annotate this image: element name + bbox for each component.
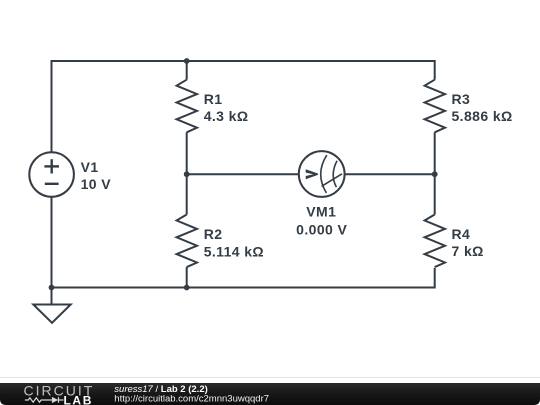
logo diode <box>52 397 58 403</box>
svg-text:LAB: LAB <box>64 393 93 405</box>
junction node C (R3/R4/VM) <box>432 171 438 177</box>
svg-text:V1: V1 <box>81 159 99 175</box>
wire middle vertical top (top wire to R1) <box>186 61 188 80</box>
svg-text:0.000 V: 0.000 V <box>296 221 347 237</box>
svg-text:R4: R4 <box>452 226 471 242</box>
wire bottom horizontal <box>52 268 435 288</box>
svg-text:R1: R1 <box>204 91 223 107</box>
ground <box>51 288 53 305</box>
voltage source V1 <box>29 152 74 197</box>
junction ground node <box>49 285 55 291</box>
svg-text:5.114 kΩ: 5.114 kΩ <box>204 243 264 259</box>
svg-text:10 V: 10 V <box>81 176 112 192</box>
wire voltmeter to node C <box>345 173 435 175</box>
wire R2 to bottom wire <box>186 267 188 287</box>
resistor R1 <box>177 80 197 133</box>
svg-text:http://circuitlab.com/c2mnn3uw: http://circuitlab.com/c2mnn3uwqqdr7 <box>114 393 269 404</box>
V1 minus sign <box>45 183 59 185</box>
V1 plus sign <box>44 159 59 184</box>
resistor R3 <box>425 80 445 133</box>
canvas bottom border line <box>0 377 540 379</box>
wire R1 to node B <box>186 132 188 214</box>
voltmeter VM1 circle <box>299 151 345 197</box>
resistor R4 <box>425 215 445 268</box>
voltmeter chevron <box>306 169 318 179</box>
voltmeter needle <box>322 174 342 187</box>
wire R3 to node C <box>434 132 436 214</box>
wire left lower (V1 bottom to ground node) <box>51 197 53 288</box>
svg-text:VM1: VM1 <box>306 204 336 220</box>
junction node bottom (R2 bottom) <box>184 285 190 291</box>
resistor R2 <box>177 215 197 268</box>
logo waveform <box>25 397 64 403</box>
wire top horizontal <box>52 61 435 152</box>
svg-text:R3: R3 <box>452 91 471 107</box>
svg-text:7 kΩ: 7 kΩ <box>452 243 484 259</box>
svg-text:5.886 kΩ: 5.886 kΩ <box>452 108 513 124</box>
wire node B to voltmeter <box>187 173 299 175</box>
junction node B (R1/R2/VM) <box>184 171 190 177</box>
voltmeter scale arcs <box>321 155 342 193</box>
svg-text:4.3 kΩ: 4.3 kΩ <box>204 108 249 124</box>
junction node top (R1 top) <box>184 58 190 64</box>
svg-text:R2: R2 <box>204 226 223 242</box>
